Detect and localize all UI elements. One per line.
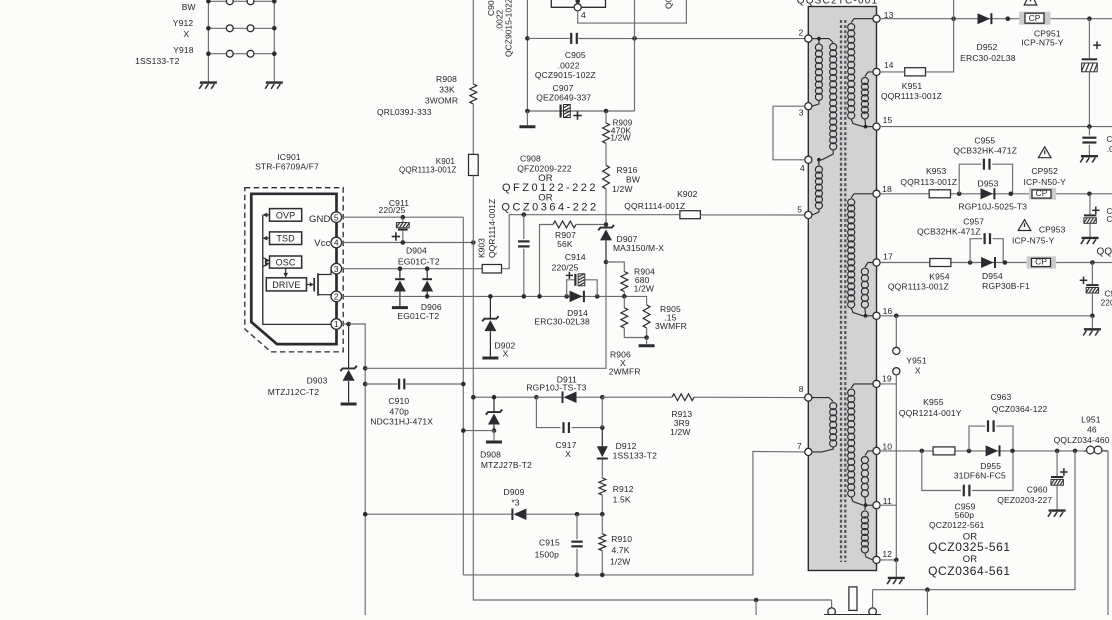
node S3 windings junction at pin 11 bbox=[864, 503, 868, 507]
svg-text:OVP: OVP bbox=[276, 210, 295, 220]
node C911/Vcc junction bbox=[401, 240, 406, 245]
wire K951 to pin14 bbox=[880, 71, 905, 73]
wire pin1 to feedback rail bbox=[349, 324, 366, 615]
node pin17-line/C958 junction bbox=[1090, 260, 1095, 265]
pin 18 of T901 bbox=[873, 190, 880, 197]
node feedback/C910 junction bbox=[363, 382, 368, 387]
svg-text:1/2W: 1/2W bbox=[612, 184, 632, 194]
wire connector right riser bbox=[872, 590, 874, 608]
ground D903 bbox=[341, 403, 357, 406]
wire K902 to transformer pin 5 bbox=[700, 214, 805, 216]
wire R908 to K901 bbox=[472, 104, 474, 154]
overcurrent protector CP953 bbox=[1027, 256, 1056, 268]
svg-text:Q08: Q08 bbox=[664, 0, 674, 9]
wire pin3 line bbox=[342, 268, 482, 270]
wire C959 bypass loop bbox=[922, 451, 961, 491]
svg-text:Y951: Y951 bbox=[906, 356, 927, 366]
svg-text:CP: CP bbox=[1036, 188, 1048, 198]
svg-text:R908: R908 bbox=[436, 74, 457, 84]
resistor R904 bbox=[621, 272, 628, 292]
node pin5/C911 junction bbox=[401, 215, 406, 220]
wire R907 right lead bbox=[576, 224, 606, 226]
svg-text:QEZ0203-227: QEZ0203-227 bbox=[997, 495, 1052, 505]
svg-text:4: 4 bbox=[800, 163, 805, 173]
wire pin5 GND line to right rail bbox=[342, 216, 464, 218]
svg-text:D904: D904 bbox=[406, 245, 427, 255]
wire C904 rail bbox=[526, 0, 528, 111]
svg-text:ERC30-02L38: ERC30-02L38 bbox=[960, 53, 1016, 63]
diode D912 (1SS133-T2) bbox=[601, 428, 603, 447]
capacitor C963 (QCZ0364-122) bbox=[987, 420, 989, 432]
wire bottom return rail bbox=[873, 451, 1075, 590]
pin 4 of snubber box bbox=[574, 4, 581, 11]
svg-text:QQR1114-001Z: QQR1114-001Z bbox=[624, 201, 685, 211]
svg-text:C9: C9 bbox=[1107, 215, 1112, 224]
node C905 left junction bbox=[525, 36, 530, 41]
pin connector right bbox=[869, 608, 877, 616]
wire K903 up to K902 line bbox=[502, 215, 524, 269]
node C915/aux-rail junction bbox=[575, 573, 580, 578]
capacitor C960 (electrolytic QEZ0203-227) bbox=[1056, 451, 1058, 476]
svg-text:C910: C910 bbox=[388, 396, 409, 406]
node T901 pin2 junction bbox=[812, 38, 819, 40]
svg-text:C905: C905 bbox=[565, 50, 586, 60]
resistor R910 bbox=[601, 514, 603, 534]
wire R912 bottom lead bbox=[601, 495, 603, 514]
node K902-line/C908 junction bbox=[522, 212, 527, 217]
op-amp U/IC901 solid body bbox=[251, 194, 336, 344]
svg-text:1500p: 1500p bbox=[535, 549, 560, 559]
jumper BW (top row) bbox=[208, 0, 274, 2]
wire R913 line bbox=[602, 396, 672, 398]
svg-text:X: X bbox=[915, 365, 921, 375]
svg-text:K903: K903 bbox=[477, 238, 487, 258]
pin 3 of IC901 bbox=[331, 263, 342, 274]
node D908 top junction bbox=[492, 395, 497, 400]
zener diode D902 (X) bbox=[489, 296, 491, 319]
wire pin18 line bbox=[880, 193, 1112, 195]
svg-text:QQR: QQR bbox=[1097, 247, 1112, 258]
IC901 dashed outline bbox=[245, 188, 343, 352]
capacitor C959 (560p) bbox=[963, 485, 965, 497]
node pin3/D906 junction bbox=[425, 266, 430, 271]
svg-text:10: 10 bbox=[882, 441, 892, 451]
zener diode D908 (MTZJ27B-T2) bbox=[493, 397, 495, 412]
IC901 OSC block bbox=[270, 256, 302, 268]
wire connector left riser bbox=[831, 600, 833, 608]
winding S2a (pins 18-16) bbox=[851, 194, 873, 198]
wire V rail from top through C905 node bbox=[634, 0, 636, 111]
svg-text:19: 19 bbox=[882, 373, 892, 383]
overcurrent protector CP951 bbox=[1019, 12, 1050, 25]
pin 2 of IC901 bbox=[331, 291, 342, 302]
wire C957 bypass loop bbox=[970, 239, 982, 263]
node feedback/D909 junction bbox=[363, 512, 368, 517]
pin 3 of T901 bbox=[805, 103, 812, 110]
snubber box upper (partial) bbox=[551, 0, 605, 7]
node S1 windings junction at pin 15 bbox=[864, 125, 868, 129]
svg-text:BW: BW bbox=[182, 2, 196, 12]
wire D907 anode to R904 bbox=[606, 262, 624, 272]
transformer core (dashed pair) bbox=[840, 20, 842, 562]
node C955 left junction bbox=[957, 192, 962, 197]
svg-text:QQR1113-001Z: QQR1113-001Z bbox=[888, 281, 949, 291]
winding P1 (pins 2-3) bbox=[818, 39, 820, 44]
svg-text:CP: CP bbox=[1035, 256, 1047, 266]
wire D912 to R912 bbox=[601, 459, 603, 478]
IC901 TSD block bbox=[270, 232, 302, 245]
pin 10 of T901 bbox=[873, 447, 880, 454]
node C963 left junction bbox=[967, 449, 972, 454]
svg-text:*3: *3 bbox=[511, 498, 519, 508]
node C957 left junction bbox=[968, 260, 973, 265]
arrow OVP to bus bbox=[264, 214, 270, 216]
svg-text:1SS133-T2: 1SS133-T2 bbox=[135, 56, 179, 66]
wire pin4 Vcc line bbox=[342, 242, 474, 244]
fuse-link K901 bbox=[469, 154, 479, 175]
svg-text:12: 12 bbox=[882, 549, 892, 559]
svg-text:16: 16 bbox=[883, 306, 893, 316]
svg-text:QCZ0122-561: QCZ0122-561 bbox=[929, 520, 985, 530]
resistor R912 bbox=[599, 478, 606, 495]
node D911/C917 left junction bbox=[534, 395, 539, 400]
svg-text:7: 7 bbox=[797, 441, 802, 451]
svg-text:MA3150/M-X: MA3150/M-X bbox=[613, 243, 664, 253]
svg-text:C908: C908 bbox=[520, 154, 541, 164]
resistor R913 bbox=[672, 394, 694, 401]
transistor Q internal MOSFET gate bbox=[307, 284, 312, 286]
svg-text:1/2W: 1/2W bbox=[634, 283, 654, 293]
svg-text:D909: D909 bbox=[504, 487, 525, 497]
ground pin18 capacitor bbox=[1089, 223, 1091, 237]
capacitor C911 (electrolytic) bbox=[402, 217, 404, 222]
winding S2b (pins 17-16) bbox=[865, 263, 873, 268]
svg-text:CP952: CP952 bbox=[1031, 166, 1058, 176]
inductor L951 bbox=[1084, 450, 1087, 452]
diode D909 (*3) bbox=[511, 508, 513, 520]
svg-text:14: 14 bbox=[884, 61, 894, 70]
wire C914 bypass loop bbox=[567, 280, 575, 297]
svg-text:R916: R916 bbox=[617, 165, 638, 175]
svg-text:4: 4 bbox=[581, 10, 586, 20]
node R907/pin2-line junction bbox=[537, 294, 542, 299]
svg-text:Y912: Y912 bbox=[173, 18, 194, 28]
svg-text:X: X bbox=[183, 29, 189, 39]
node above pin 4 of snubber bbox=[575, 0, 580, 3]
wire R904 bottom lead bbox=[623, 292, 625, 297]
svg-text:.0: .0 bbox=[1107, 145, 1112, 154]
arrow bus to OSC upper bbox=[263, 258, 268, 261]
wire pin13 line bbox=[880, 18, 1112, 20]
svg-text:C9: C9 bbox=[1105, 290, 1112, 299]
IC901 OVP block bbox=[270, 209, 302, 222]
ground R905/R906 bbox=[646, 338, 648, 345]
capacitor C908 bbox=[523, 215, 525, 239]
svg-text:QCZ0364-222: QCZ0364-222 bbox=[501, 202, 598, 214]
node D907 anode junction bbox=[604, 260, 609, 265]
svg-text:1/2W: 1/2W bbox=[670, 427, 690, 437]
svg-text:2WMFR: 2WMFR bbox=[609, 366, 641, 376]
svg-text:K955: K955 bbox=[923, 397, 944, 407]
node pin2/D902 junction bbox=[488, 294, 493, 299]
node pin13/K951-riser junction bbox=[951, 16, 956, 21]
svg-text:8: 8 bbox=[799, 384, 804, 394]
svg-text:D912: D912 bbox=[616, 441, 637, 451]
node rail/D908-line junction bbox=[471, 395, 476, 400]
ground left rail bbox=[200, 81, 217, 83]
pin connector left bbox=[828, 608, 836, 616]
node D952/CP951 junction bbox=[1006, 16, 1011, 21]
wire K902 line bbox=[524, 214, 680, 216]
diode D904 (EG01C-T2) bbox=[399, 269, 401, 279]
svg-text:C955: C955 bbox=[974, 136, 995, 146]
svg-text:3: 3 bbox=[799, 107, 804, 117]
wire R907 left leg bbox=[540, 225, 554, 297]
resistor R907 bbox=[553, 221, 576, 228]
svg-text:NDC31HJ-471X: NDC31HJ-471X bbox=[370, 417, 433, 427]
svg-text:2: 2 bbox=[799, 28, 804, 38]
svg-text:1: 1 bbox=[334, 319, 339, 329]
arrow bus to OSC lower bbox=[263, 264, 268, 267]
wire line1 to D907 anode bbox=[365, 262, 606, 368]
pin 8 of T901 bbox=[805, 394, 812, 401]
node D908 anode junction bbox=[492, 428, 497, 433]
svg-text:QCB32HK-471Z: QCB32HK-471Z bbox=[953, 146, 1017, 156]
svg-text:1SS133-T2: 1SS133-T2 bbox=[613, 451, 657, 461]
wire R908/K901 rail top bbox=[472, 0, 474, 84]
node pin10-line/bottom-riser junction bbox=[1073, 449, 1078, 454]
svg-text:K902: K902 bbox=[677, 189, 698, 199]
svg-text:QQR1113-001Z: QQR1113-001Z bbox=[399, 166, 457, 175]
svg-text:X: X bbox=[565, 449, 571, 459]
warning triangle (top, cut) bbox=[1024, 0, 1037, 5]
node Vcc/K901-rail junction bbox=[471, 240, 476, 245]
diode D955 (31DF6N-FC5) bbox=[986, 445, 999, 456]
capacitor C952 on 15-line bbox=[1088, 127, 1090, 136]
wire K901 down Vcc rail to bottom bbox=[473, 176, 831, 601]
warning triangle near CP953 bbox=[1018, 220, 1031, 231]
svg-text:DRIVE: DRIVE bbox=[272, 280, 300, 290]
node pin18-line/C956 junction bbox=[1087, 192, 1092, 197]
svg-text:GND: GND bbox=[309, 214, 331, 225]
wire pin17 line bbox=[880, 262, 1112, 264]
svg-text:QQR1114-001Z: QQR1114-001Z bbox=[487, 199, 497, 258]
ground D902 bbox=[482, 357, 498, 360]
node R905/R906 junction bbox=[644, 335, 649, 340]
jumper Y951 (X) bbox=[893, 347, 900, 354]
wire D911 node down to C917 node bbox=[601, 397, 603, 427]
svg-text:ICP-N75-Y: ICP-N75-Y bbox=[1021, 38, 1064, 48]
transformer T901 body bbox=[808, 7, 876, 571]
pin 5 of T901 bbox=[805, 211, 812, 218]
wire D909 line left bbox=[365, 513, 511, 515]
svg-text:QCZ0364-122: QCZ0364-122 bbox=[992, 404, 1048, 414]
pin 19 of T901 bbox=[873, 380, 880, 387]
diode D954 (RGP30B-F1) bbox=[981, 257, 994, 268]
svg-text:46: 46 bbox=[1087, 424, 1097, 434]
jumper Y918 bbox=[208, 53, 274, 55]
svg-text:D908: D908 bbox=[480, 449, 501, 459]
wire Y951 rail upper bbox=[895, 316, 897, 348]
winding S1b (pins 14-15) bbox=[865, 72, 873, 77]
svg-text:EG01C-T2: EG01C-T2 bbox=[398, 257, 440, 267]
winding P4 (pins 8-7) bbox=[812, 398, 833, 402]
pin 16 of T901 bbox=[873, 312, 880, 319]
IC901 internal bus bbox=[263, 215, 331, 325]
svg-text:QCB32HK-471Z: QCB32HK-471Z bbox=[917, 227, 981, 237]
wire C955 bypass loop bbox=[959, 164, 981, 194]
wire pin16 line bbox=[880, 315, 1092, 317]
svg-text:C915: C915 bbox=[539, 537, 560, 547]
node pin16/C958 junction bbox=[1090, 314, 1095, 319]
wire left rail of jumper network bbox=[207, 1, 209, 81]
pin 5 of IC901 bbox=[331, 212, 342, 223]
wire snubber pin4 loop bbox=[578, 0, 687, 23]
svg-text:11: 11 bbox=[883, 496, 892, 506]
node pin1 junction bbox=[346, 322, 351, 327]
wire C907 line bbox=[527, 110, 634, 112]
svg-text:QFZ0209-222: QFZ0209-222 bbox=[517, 163, 572, 173]
svg-text:3: 3 bbox=[334, 264, 339, 274]
svg-text:15: 15 bbox=[883, 115, 893, 125]
svg-text:QQR113-001Z: QQR113-001Z bbox=[900, 177, 957, 187]
wire stub below Vcc bottom rail bbox=[755, 600, 757, 615]
svg-text:QQR1113-001Z: QQR1113-001Z bbox=[881, 91, 942, 101]
node C914/D914 loop right junction bbox=[595, 294, 600, 299]
resistor R909 bbox=[603, 123, 610, 144]
wire C917 bypass left bbox=[536, 397, 560, 427]
ground D908 bbox=[493, 431, 495, 441]
wire R909 top lead bbox=[605, 111, 607, 123]
svg-text:56K: 56K bbox=[557, 239, 573, 249]
node C910/GND-rail junction bbox=[461, 382, 466, 387]
wire pin2 line bbox=[342, 296, 647, 304]
wire C910 line right bbox=[406, 383, 463, 385]
ground right rail bbox=[266, 81, 283, 83]
resistor R905 (.15 3WMFR) bbox=[643, 305, 650, 328]
fuse-link K954 bbox=[930, 259, 951, 267]
svg-text:QCZ9015-102Z: QCZ9015-102Z bbox=[504, 0, 514, 57]
node D909/R912/R910 junction bbox=[600, 512, 605, 517]
fuse-link K951 bbox=[905, 68, 926, 76]
winding S3b (pins 10-11) bbox=[865, 451, 873, 456]
wire pins 3-4 strap bbox=[773, 106, 805, 160]
node GND-rail/D908 junction bbox=[461, 428, 466, 433]
svg-text:OSC: OSC bbox=[276, 257, 296, 267]
wire connector body edge (cut) bbox=[824, 614, 881, 616]
svg-text:17: 17 bbox=[883, 251, 893, 261]
svg-text:D955: D955 bbox=[980, 461, 1001, 471]
svg-text:K951: K951 bbox=[902, 81, 923, 91]
svg-text:CP: CP bbox=[1029, 13, 1041, 23]
svg-text:L951: L951 bbox=[1081, 415, 1101, 425]
wire pin11 stub bbox=[880, 504, 896, 506]
pin 15 of T901 bbox=[873, 123, 880, 130]
svg-text:ICP-N50-Y: ICP-N50-Y bbox=[1023, 177, 1066, 187]
capacitor C905 bbox=[570, 33, 572, 44]
node pin3/D904 junction bbox=[398, 266, 403, 271]
svg-text:ICP-N75-Y: ICP-N75-Y bbox=[1012, 236, 1055, 246]
wire right rail of jumper network bbox=[273, 1, 275, 81]
ground pin16 line bbox=[1091, 316, 1093, 329]
node D955/C963 junction bbox=[1010, 449, 1015, 454]
winding S1a (pins 13-15) bbox=[851, 19, 873, 23]
node D953/CP952 junction bbox=[1009, 192, 1014, 197]
svg-text:220/25: 220/25 bbox=[379, 205, 406, 215]
svg-text:470p: 470p bbox=[389, 406, 409, 416]
pin 12 of T901 bbox=[873, 556, 880, 563]
ground pin15 capacitor bbox=[1088, 145, 1090, 155]
svg-text:QQR1214-001Y: QQR1214-001Y bbox=[899, 408, 962, 418]
svg-text:QRL039J-333: QRL039J-333 bbox=[377, 107, 432, 117]
svg-text:220: 220 bbox=[1101, 298, 1112, 307]
ground pin12 bbox=[895, 560, 897, 577]
wire stub below bottom rail bbox=[926, 590, 928, 615]
svg-text:1.5K: 1.5K bbox=[613, 495, 631, 505]
node pin15/C junction bbox=[1087, 124, 1092, 129]
capacitor C951 (electrolytic) on 13-line bbox=[1088, 19, 1090, 59]
transistor Q internal MOSFET channel bbox=[317, 273, 319, 295]
resistor R908 bbox=[470, 84, 477, 104]
fuse-link K902 bbox=[680, 211, 701, 219]
wire C905 line left bbox=[527, 37, 569, 39]
pin 11 of T901 bbox=[873, 502, 880, 509]
wire MOSFET source to pin 2 bbox=[318, 295, 331, 297]
node R904/R906/pin2-line junction bbox=[622, 294, 627, 299]
svg-text:5: 5 bbox=[334, 212, 339, 222]
wire C905 line right to transformer pin 2 bbox=[578, 38, 805, 40]
svg-text:QCZ9015-102Z: QCZ9015-102Z bbox=[535, 70, 596, 80]
diode D953 (RGP10J-5025-T3) bbox=[981, 188, 994, 199]
wire pin19 stub bbox=[880, 383, 896, 385]
node R916/R907/D907 junction bbox=[604, 222, 609, 227]
node pin16/Y951-rail junction bbox=[894, 314, 899, 319]
svg-text:QCZ0364-561: QCZ0364-561 bbox=[928, 564, 1011, 578]
svg-text:1/2W: 1/2W bbox=[610, 133, 630, 143]
pin 17 of T901 bbox=[873, 259, 880, 266]
ground C960 bbox=[1056, 485, 1058, 510]
wire D911 leads bbox=[536, 396, 561, 398]
pin 4 of IC901 bbox=[331, 237, 342, 248]
svg-text:3WOMR: 3WOMR bbox=[425, 96, 458, 106]
node pin13-line/C951 junction bbox=[1087, 16, 1092, 21]
pin 4 of T901 bbox=[805, 156, 812, 163]
svg-text:Vcc: Vcc bbox=[314, 238, 330, 249]
diode D911 (RGP10J-TS-T3) bbox=[562, 391, 564, 403]
wire pin10 line bbox=[880, 450, 1084, 452]
capacitor C914 (electrolytic) bbox=[574, 274, 576, 286]
pin 1 of IC901 bbox=[331, 319, 342, 330]
svg-text:C957: C957 bbox=[963, 217, 984, 227]
node C914/D914 loop left junction bbox=[564, 294, 569, 299]
wire L951 output down bbox=[1107, 451, 1109, 615]
svg-text:MTZJ12C-T2: MTZJ12C-T2 bbox=[268, 387, 320, 397]
overcurrent protector CP952 bbox=[1029, 188, 1056, 200]
node C907 left junction bbox=[525, 109, 530, 114]
ground C907 node bbox=[526, 111, 528, 125]
wire C963 bypass loop bbox=[969, 426, 985, 451]
arrow OSC to DRIVE bbox=[285, 268, 287, 274]
diode D906 (EG01C-T2) bbox=[426, 269, 428, 279]
wire R916 down across K902 line bbox=[605, 189, 607, 225]
svg-text:QEZ0649-337: QEZ0649-337 bbox=[536, 93, 591, 103]
capacitor C907 (electrolytic) bbox=[560, 105, 562, 118]
jumper Y912 bbox=[208, 27, 274, 29]
svg-text:CP953: CP953 bbox=[1039, 224, 1066, 234]
svg-text:D953: D953 bbox=[978, 178, 999, 188]
svg-text:18: 18 bbox=[882, 184, 892, 194]
capacitor C956 (electrolytic) on 18-line bbox=[1089, 194, 1091, 215]
